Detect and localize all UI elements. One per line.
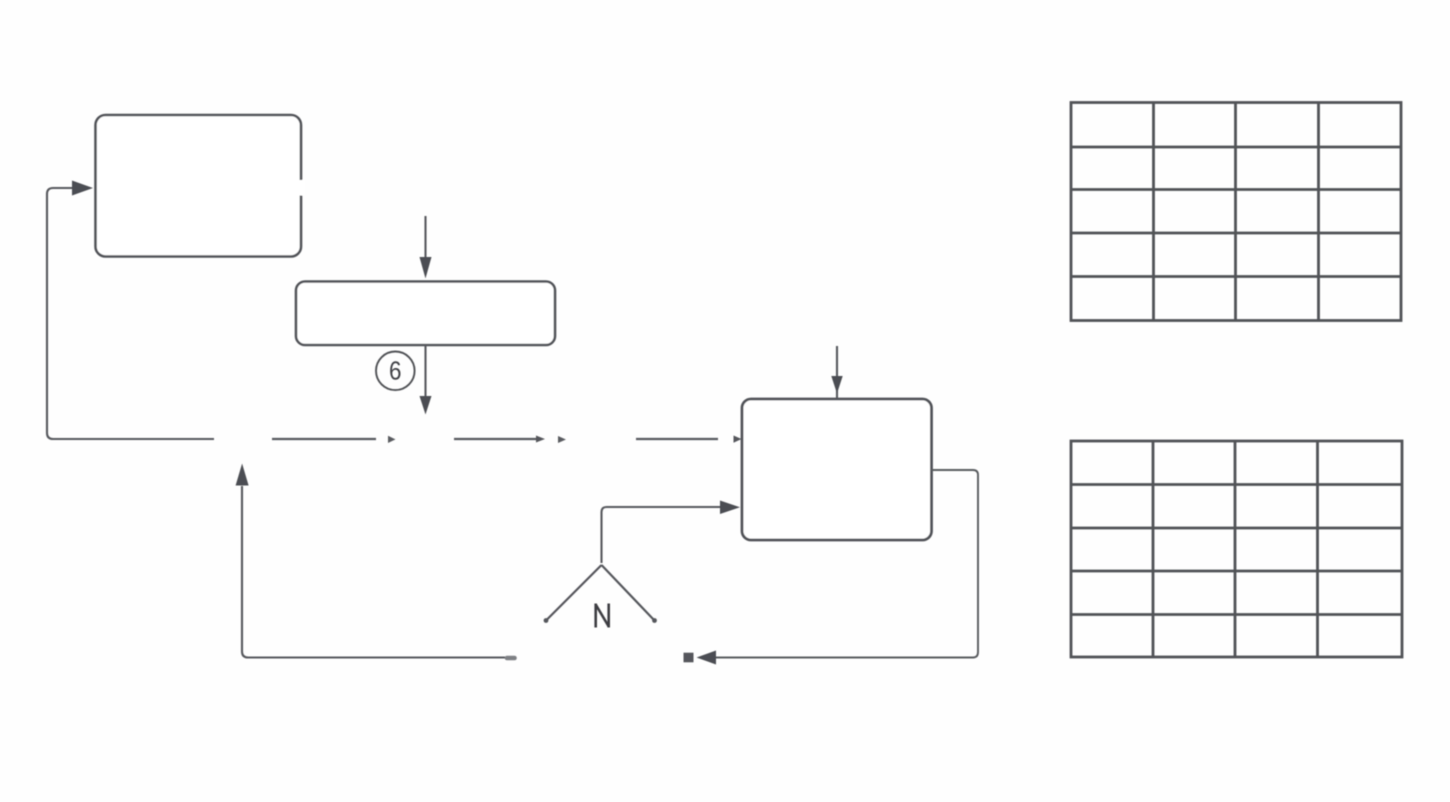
svg-text:6: 6 xyxy=(389,357,401,386)
small arrow tip remnant after segment 3 xyxy=(558,436,566,443)
small arrow tip remnant after segment 2 xyxy=(388,436,396,443)
feedback loop from B3 right side xyxy=(716,470,978,658)
decision branch V (right leg) xyxy=(602,565,655,620)
process box B3 (middle-right) xyxy=(742,399,932,540)
label N (No branch) xyxy=(596,604,609,628)
circled step number 6 xyxy=(376,352,415,391)
connector into B1: loop from bottom line, up left side, arrow into B1 xyxy=(47,188,214,439)
branch connector into B3 left side xyxy=(602,507,722,563)
arrowhead pointing left at loop end xyxy=(697,651,717,665)
wire segment 3 on main line xyxy=(454,438,537,440)
small square remnant left of arrowhead xyxy=(684,653,694,663)
arrowhead on segment 3 xyxy=(536,436,545,443)
table grid T2 (bottom-right) xyxy=(1071,441,1402,657)
process box B1 (top-left) xyxy=(96,115,302,257)
dot on right leg end xyxy=(652,618,657,623)
dot on left leg end xyxy=(544,618,549,623)
small arrow tip into B3 left side xyxy=(734,436,742,443)
arrow into B3 from above xyxy=(836,346,838,398)
arrow out of B2 bottom xyxy=(424,345,426,397)
wire segment 2 on main line xyxy=(272,438,376,440)
return connector: up arrow on left xyxy=(242,486,505,658)
gap in right border of B1 xyxy=(297,180,305,196)
arrowhead pointing up xyxy=(236,464,249,486)
wire segment 4 on main line xyxy=(636,438,718,440)
end blob of bottom-left wire xyxy=(507,656,515,661)
arrowhead into B1 xyxy=(72,181,93,196)
decision branch V (left leg) xyxy=(547,565,602,620)
process box B2 (wide, short) xyxy=(296,282,555,346)
arrowhead into B3 left xyxy=(720,501,740,515)
arrow into B2 from above xyxy=(424,216,426,258)
table grid T1 (top-right) xyxy=(1071,103,1401,321)
